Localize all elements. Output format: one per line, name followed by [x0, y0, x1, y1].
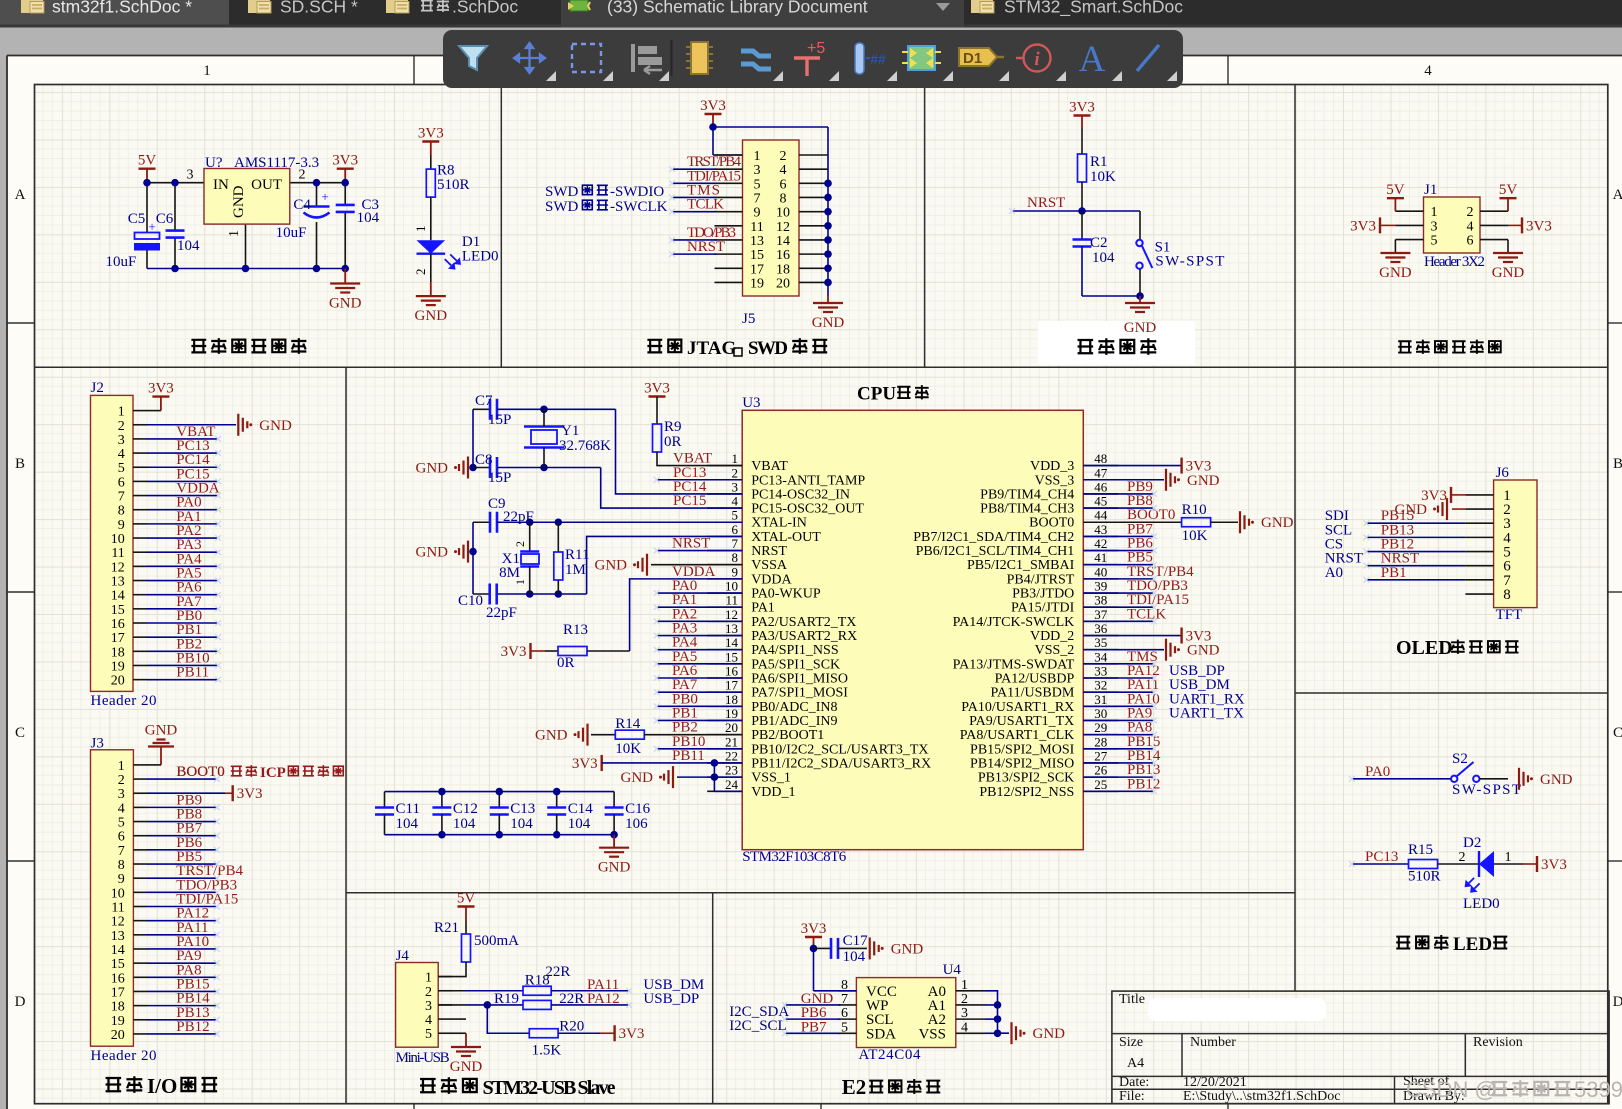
svg-text:PB15/SPI2_MOSI: PB15/SPI2_MOSI	[970, 742, 1075, 757]
svg-text:10: 10	[725, 579, 738, 594]
svg-text:510R: 510R	[437, 177, 470, 193]
svg-text:3: 3	[187, 168, 194, 183]
svg-text:C: C	[1613, 725, 1622, 741]
svg-text:R19: R19	[494, 991, 519, 1007]
svg-text:29: 29	[1094, 720, 1107, 735]
svg-text:(33) Schematic Library Documen: (33) Schematic Library Document	[607, 0, 868, 17]
svg-text:12: 12	[776, 220, 790, 235]
svg-text:S2: S2	[1452, 751, 1468, 767]
svg-text:VDD_3: VDD_3	[1030, 459, 1074, 474]
svg-text:9: 9	[754, 206, 761, 221]
svg-text:34: 34	[1094, 649, 1108, 664]
svg-text:6: 6	[732, 522, 739, 537]
svg-text:PA0-WKUP: PA0-WKUP	[751, 587, 821, 602]
svg-text:R9: R9	[664, 419, 682, 435]
svg-text:6: 6	[1467, 234, 1474, 249]
svg-text:AT24C04: AT24C04	[859, 1047, 922, 1063]
svg-text:16: 16	[776, 248, 790, 263]
svg-text:1: 1	[118, 405, 125, 420]
svg-text:XTAL-OUT: XTAL-OUT	[751, 530, 821, 545]
svg-text:32.768K: 32.768K	[559, 438, 611, 454]
svg-text:GND: GND	[1187, 473, 1220, 489]
svg-text:NRST: NRST	[687, 239, 725, 255]
svg-text:45: 45	[1094, 494, 1107, 509]
svg-text:STM32-USB Slave: STM32-USB Slave	[483, 1077, 616, 1099]
svg-text:4: 4	[1424, 63, 1432, 79]
svg-text:PB10/I2C2_SCL/USART3_TX: PB10/I2C2_SCL/USART3_TX	[751, 742, 928, 757]
svg-text:11: 11	[111, 901, 124, 916]
svg-text:C2: C2	[1090, 235, 1108, 251]
svg-text:4: 4	[780, 163, 787, 178]
svg-text:40: 40	[1094, 564, 1107, 579]
svg-text:13: 13	[111, 929, 125, 944]
svg-text:39: 39	[1094, 579, 1107, 594]
svg-text:7: 7	[754, 191, 761, 206]
svg-text:15: 15	[725, 649, 738, 664]
svg-text:6: 6	[841, 1006, 848, 1021]
svg-text:Title: Title	[1119, 992, 1145, 1007]
svg-text:B: B	[1613, 456, 1622, 472]
svg-text:3: 3	[961, 1006, 968, 1021]
svg-text:14: 14	[725, 635, 739, 650]
svg-text:9: 9	[118, 872, 125, 887]
svg-text:GND: GND	[231, 185, 247, 218]
svg-text:4: 4	[118, 801, 125, 816]
svg-text:Y1: Y1	[561, 423, 579, 439]
svg-text:I/O: I/O	[147, 1074, 177, 1098]
svg-text:106: 106	[625, 816, 648, 832]
svg-text:PC15-OSC32_OUT: PC15-OSC32_OUT	[751, 502, 864, 517]
svg-text:43: 43	[1094, 522, 1107, 537]
svg-text:22: 22	[725, 748, 738, 763]
svg-text:15P: 15P	[488, 470, 511, 486]
svg-text:PB14/SPI2_MISO: PB14/SPI2_MISO	[970, 756, 1074, 771]
svg-text:3V3: 3V3	[801, 921, 827, 937]
svg-text:C5: C5	[128, 211, 146, 227]
svg-text:TFT: TFT	[1496, 607, 1523, 623]
svg-text:3V3: 3V3	[237, 786, 263, 802]
svg-text:510R: 510R	[1408, 869, 1441, 885]
svg-text:PC15: PC15	[673, 493, 706, 509]
svg-text:3V3: 3V3	[1526, 218, 1552, 234]
svg-text:SWD: SWD	[748, 338, 788, 359]
svg-text:28: 28	[1094, 734, 1107, 749]
svg-text:1: 1	[227, 230, 242, 237]
svg-text:20: 20	[111, 674, 125, 689]
svg-text:19: 19	[725, 706, 738, 721]
svg-text:3V3: 3V3	[644, 381, 670, 397]
svg-text:J1: J1	[1424, 182, 1437, 198]
svg-text:Header 20: Header 20	[91, 1048, 157, 1064]
svg-text:2: 2	[732, 465, 739, 480]
svg-text:5: 5	[841, 1020, 848, 1035]
svg-text:26: 26	[1094, 763, 1108, 778]
svg-text:3V3: 3V3	[418, 126, 444, 142]
svg-text:104: 104	[510, 816, 533, 832]
svg-text:GND: GND	[450, 1059, 483, 1075]
svg-text:104: 104	[568, 816, 591, 832]
svg-text:8: 8	[118, 504, 125, 519]
svg-text:2: 2	[299, 168, 306, 183]
svg-text:C13: C13	[510, 801, 535, 817]
svg-text:3: 3	[425, 999, 432, 1014]
svg-text:Mini-USB: Mini-USB	[396, 1050, 450, 1066]
svg-text:4: 4	[1467, 219, 1474, 234]
svg-text:44: 44	[1094, 508, 1108, 523]
svg-text:TCLK: TCLK	[1127, 606, 1166, 622]
svg-text:PA9/USART1_TX: PA9/USART1_TX	[969, 714, 1074, 729]
svg-text:6: 6	[780, 177, 787, 192]
svg-text:U?: U?	[205, 155, 223, 171]
svg-text:GND: GND	[1187, 643, 1220, 659]
svg-text:8: 8	[118, 858, 125, 873]
svg-text:PA12: PA12	[587, 991, 620, 1007]
svg-text:Date:: Date:	[1119, 1075, 1149, 1090]
svg-text:8M: 8M	[499, 565, 520, 581]
svg-text:NRST: NRST	[751, 544, 787, 559]
svg-text:1M: 1M	[565, 562, 586, 578]
svg-text:-SWDIO: -SWDIO	[610, 184, 664, 200]
svg-text:104: 104	[843, 949, 866, 965]
svg-text:PB7: PB7	[801, 1019, 827, 1035]
svg-text:18: 18	[776, 262, 790, 277]
svg-text:25: 25	[1094, 777, 1107, 792]
svg-text:15: 15	[750, 248, 764, 263]
svg-text:1.5K: 1.5K	[532, 1043, 562, 1059]
svg-text:IN: IN	[213, 177, 229, 193]
svg-text:7: 7	[732, 536, 739, 551]
svg-text:PB8/TIM4_CH3: PB8/TIM4_CH3	[980, 502, 1074, 517]
svg-text:J3: J3	[91, 736, 104, 752]
svg-text:PC14-OSC32_IN: PC14-OSC32_IN	[751, 487, 850, 502]
svg-text:3V3: 3V3	[1541, 857, 1567, 873]
svg-text:GND: GND	[1124, 320, 1157, 336]
svg-text:7: 7	[118, 490, 125, 505]
svg-text:GND: GND	[415, 308, 448, 324]
svg-text:10uF: 10uF	[276, 225, 307, 241]
svg-text:104: 104	[177, 238, 200, 254]
svg-text:2: 2	[1467, 205, 1474, 220]
svg-text:16: 16	[111, 971, 125, 986]
svg-text:PA15/JTDI: PA15/JTDI	[1011, 601, 1075, 616]
svg-text:GND: GND	[621, 770, 654, 786]
svg-text:NRST: NRST	[672, 536, 710, 552]
svg-text:GND: GND	[1261, 515, 1294, 531]
svg-text:PB13/SPI2_SCK: PB13/SPI2_SCK	[978, 771, 1074, 786]
svg-text:9: 9	[118, 518, 125, 533]
svg-text:1: 1	[961, 978, 968, 993]
svg-text:R13: R13	[563, 622, 588, 638]
svg-text:2: 2	[118, 773, 125, 788]
svg-text:PB0/ADC_IN8: PB0/ADC_IN8	[751, 700, 837, 715]
svg-text:I2C_SCL: I2C_SCL	[729, 1018, 787, 1034]
svg-text:5: 5	[118, 816, 125, 831]
svg-text:1: 1	[754, 149, 761, 164]
svg-text:R10: R10	[1182, 502, 1207, 518]
svg-text:UART1_TX: UART1_TX	[1169, 705, 1244, 721]
svg-text:C16: C16	[625, 801, 651, 817]
svg-text:GND: GND	[1033, 1026, 1066, 1042]
svg-text:46: 46	[1094, 479, 1108, 494]
svg-text:PB1: PB1	[1381, 565, 1407, 581]
svg-text:PB2: PB2	[672, 720, 698, 736]
svg-text:C4: C4	[293, 197, 311, 213]
svg-text:5V: 5V	[1499, 182, 1518, 198]
svg-text:R15: R15	[1408, 842, 1433, 858]
svg-text:8: 8	[1503, 587, 1511, 603]
svg-text:U3: U3	[742, 395, 760, 411]
svg-text:J2: J2	[91, 380, 104, 396]
svg-text:SWD: SWD	[545, 184, 579, 200]
svg-text:PA14/JTCK-SWCLK: PA14/JTCK-SWCLK	[953, 615, 1075, 630]
svg-text:24: 24	[725, 777, 739, 792]
svg-text:VSS: VSS	[918, 1026, 946, 1042]
svg-text:10K: 10K	[615, 741, 641, 757]
svg-text:12/20/2021: 12/20/2021	[1183, 1075, 1247, 1090]
svg-text:15P: 15P	[488, 412, 511, 428]
svg-text:SD.SCH *: SD.SCH *	[280, 0, 358, 17]
svg-text:2: 2	[1459, 850, 1466, 865]
svg-text:6: 6	[118, 475, 125, 490]
svg-text:16: 16	[725, 664, 739, 679]
svg-text:C12: C12	[453, 801, 478, 817]
svg-text:C: C	[15, 725, 25, 741]
svg-text:PC13: PC13	[1365, 849, 1398, 865]
svg-text:PA0: PA0	[1365, 764, 1390, 780]
svg-text:JTAG: JTAG	[687, 338, 736, 359]
svg-text:PB12/SPI2_NSS: PB12/SPI2_NSS	[979, 785, 1074, 800]
svg-text:GND: GND	[598, 860, 631, 876]
svg-text:STM32F103C8T6: STM32F103C8T6	[742, 849, 847, 865]
svg-text:VSS_1: VSS_1	[751, 771, 791, 786]
svg-text:C10: C10	[458, 593, 483, 609]
svg-text:3V3: 3V3	[572, 756, 598, 772]
svg-text:3V3: 3V3	[501, 644, 527, 660]
svg-text:C14: C14	[568, 801, 594, 817]
svg-text:C7: C7	[475, 393, 493, 409]
svg-text:22R: 22R	[545, 964, 570, 980]
svg-text:VDD_2: VDD_2	[1030, 629, 1074, 644]
svg-text:J6: J6	[1496, 465, 1510, 481]
svg-text:12: 12	[111, 560, 125, 575]
svg-text:3: 3	[118, 433, 125, 448]
svg-text:10: 10	[111, 886, 125, 901]
svg-text:GND: GND	[535, 728, 568, 744]
svg-text:13: 13	[111, 575, 125, 590]
svg-text:PB5/I2C1_SMBAI: PB5/I2C1_SMBAI	[967, 558, 1075, 573]
svg-text:12: 12	[111, 915, 125, 930]
svg-text:5: 5	[732, 508, 739, 523]
svg-text:21: 21	[725, 734, 738, 749]
svg-text:31: 31	[1094, 692, 1107, 707]
svg-text:TCLK: TCLK	[687, 197, 724, 213]
svg-text:LED0: LED0	[1463, 896, 1500, 912]
svg-text:OUT: OUT	[251, 177, 282, 193]
svg-text:14: 14	[776, 234, 790, 249]
svg-text:3V3: 3V3	[700, 98, 726, 114]
svg-text:2: 2	[780, 149, 787, 164]
svg-text:10: 10	[111, 532, 125, 547]
svg-text:104: 104	[396, 816, 419, 832]
svg-text:7: 7	[841, 992, 848, 1007]
svg-text:LED: LED	[1453, 934, 1492, 955]
svg-text:D2: D2	[1463, 835, 1481, 851]
svg-text:Revision: Revision	[1473, 1035, 1523, 1050]
svg-text:15: 15	[111, 603, 125, 618]
svg-text:2: 2	[513, 541, 527, 547]
svg-text:PB9/TIM4_CH4: PB9/TIM4_CH4	[980, 487, 1074, 502]
svg-text:12: 12	[725, 607, 738, 622]
svg-text:8: 8	[780, 191, 787, 206]
svg-text:23: 23	[725, 763, 738, 778]
svg-text:41: 41	[1094, 550, 1107, 565]
svg-text:104: 104	[453, 816, 476, 832]
svg-text:C11: C11	[396, 801, 420, 817]
svg-text:VSSA: VSSA	[751, 558, 788, 573]
svg-text:Header 20: Header 20	[91, 693, 157, 709]
svg-text:1: 1	[425, 971, 432, 986]
svg-text:BOOT0: BOOT0	[1127, 507, 1175, 523]
svg-text:1: 1	[1431, 205, 1438, 220]
svg-text:22pF: 22pF	[486, 605, 517, 621]
svg-text:PB11: PB11	[672, 748, 705, 764]
svg-text:5: 5	[1431, 234, 1438, 249]
svg-text:A: A	[15, 187, 26, 203]
svg-text:STM32_Smart.SchDoc: STM32_Smart.SchDoc	[1004, 0, 1183, 18]
svg-text:VSS_3: VSS_3	[1035, 473, 1075, 488]
svg-text:C6: C6	[156, 211, 174, 227]
svg-text:17: 17	[111, 985, 125, 1000]
svg-text:11: 11	[725, 593, 738, 608]
svg-text:VSS_2: VSS_2	[1035, 643, 1075, 658]
svg-text:J4: J4	[396, 948, 410, 964]
svg-text:0R: 0R	[557, 655, 575, 671]
svg-text:3: 3	[118, 787, 125, 802]
svg-text:R21: R21	[434, 920, 459, 936]
svg-text:+: +	[321, 189, 328, 204]
svg-text:R14: R14	[615, 716, 641, 732]
svg-text:20: 20	[725, 720, 738, 735]
svg-text:D1: D1	[963, 50, 982, 67]
svg-text:PB7/I2C1_SDA/TIM4_CH2: PB7/I2C1_SDA/TIM4_CH2	[913, 530, 1074, 545]
svg-text:11: 11	[111, 546, 124, 561]
svg-text:18: 18	[725, 692, 738, 707]
svg-text:30: 30	[1094, 706, 1107, 721]
svg-text:33: 33	[1094, 664, 1107, 679]
svg-text:4: 4	[118, 447, 125, 462]
svg-text:GND: GND	[416, 461, 449, 477]
svg-text:3V3: 3V3	[1350, 218, 1376, 234]
svg-text:A4: A4	[1127, 1056, 1144, 1071]
svg-text:5: 5	[118, 461, 125, 476]
svg-text:3: 3	[1431, 219, 1438, 234]
svg-text:USB_DP: USB_DP	[643, 991, 699, 1007]
svg-text:NRST: NRST	[1027, 195, 1065, 211]
svg-text:A: A	[1613, 187, 1622, 203]
svg-text:AMS1117-3.3: AMS1117-3.3	[234, 155, 319, 171]
svg-text:A0: A0	[1325, 565, 1343, 581]
svg-text:0R: 0R	[664, 434, 682, 450]
svg-text:GND: GND	[259, 418, 292, 434]
svg-text:E2: E2	[842, 1075, 867, 1099]
svg-text:15: 15	[111, 957, 125, 972]
svg-text:1: 1	[413, 226, 428, 233]
svg-text:B: B	[15, 456, 25, 472]
svg-text:27: 27	[1094, 748, 1108, 763]
svg-text:PA6/SPI1_MISO: PA6/SPI1_MISO	[751, 672, 848, 687]
svg-text:PA4/SPI1_NSS: PA4/SPI1_NSS	[751, 643, 838, 658]
svg-text:SDA: SDA	[866, 1026, 896, 1042]
svg-text:PA1: PA1	[751, 601, 775, 616]
svg-text:GND: GND	[329, 296, 362, 312]
svg-text:22R: 22R	[559, 991, 584, 1007]
svg-text:GND: GND	[416, 545, 449, 561]
svg-text:500mA: 500mA	[474, 933, 519, 949]
svg-text:GND: GND	[812, 315, 845, 331]
svg-text:3V3: 3V3	[148, 381, 174, 397]
svg-text:A: A	[1079, 39, 1106, 80]
svg-text:5: 5	[754, 177, 761, 192]
svg-text:D: D	[1613, 994, 1622, 1010]
svg-text:LED0: LED0	[462, 248, 499, 264]
svg-text:7: 7	[118, 844, 125, 859]
svg-text:5V: 5V	[138, 153, 157, 169]
svg-text:17: 17	[725, 678, 739, 693]
svg-text:PA13/JTMS-SWDAT: PA13/JTMS-SWDAT	[953, 657, 1075, 672]
svg-text:PA3/USART2_RX: PA3/USART2_RX	[751, 629, 857, 644]
svg-text:XTAL-IN: XTAL-IN	[751, 516, 807, 531]
svg-text:SWD: SWD	[545, 199, 579, 215]
svg-text:+5: +5	[807, 40, 825, 57]
svg-text:PA10/USART1_RX: PA10/USART1_RX	[961, 700, 1074, 715]
svg-text:D: D	[15, 994, 26, 1010]
svg-text:OLED: OLED	[1396, 637, 1453, 659]
svg-text:R11: R11	[565, 547, 589, 563]
svg-text:19: 19	[111, 659, 125, 674]
svg-text:##: ##	[870, 51, 886, 67]
svg-text:14: 14	[111, 943, 125, 958]
svg-text:32: 32	[1094, 678, 1107, 693]
svg-text:2: 2	[413, 269, 428, 276]
svg-text:PB4/JTRST: PB4/JTRST	[1007, 572, 1075, 587]
svg-text:GND: GND	[891, 941, 924, 957]
svg-text:J5: J5	[742, 311, 755, 327]
svg-text:CPU: CPU	[857, 384, 896, 405]
svg-text:2: 2	[961, 992, 968, 1007]
svg-text:PB6/I2C1_SCL/TIM4_CH1: PB6/I2C1_SCL/TIM4_CH1	[916, 544, 1075, 559]
svg-text:R20: R20	[559, 1018, 584, 1034]
svg-text:U4: U4	[943, 962, 962, 978]
svg-text:GND: GND	[1492, 265, 1525, 281]
svg-text:16: 16	[111, 617, 125, 632]
svg-text:Number: Number	[1190, 1035, 1236, 1050]
svg-text:GND: GND	[145, 723, 178, 739]
svg-text:PA12/USBDP: PA12/USBDP	[995, 672, 1075, 687]
svg-text:18: 18	[111, 1000, 125, 1015]
svg-text:GND: GND	[595, 558, 628, 574]
svg-text:18: 18	[111, 645, 125, 660]
svg-text:36: 36	[1094, 621, 1108, 636]
svg-text:GND: GND	[1540, 772, 1573, 788]
svg-text:PB1/ADC_IN9: PB1/ADC_IN9	[751, 714, 837, 729]
svg-text:.SchDoc: .SchDoc	[452, 0, 518, 17]
svg-text:PA8/USART1_CLK: PA8/USART1_CLK	[960, 728, 1075, 743]
svg-text:14: 14	[111, 589, 125, 604]
svg-text:42: 42	[1094, 536, 1107, 551]
svg-text:1: 1	[732, 451, 739, 466]
svg-text:17: 17	[750, 262, 764, 277]
svg-text:5V: 5V	[1386, 182, 1405, 198]
